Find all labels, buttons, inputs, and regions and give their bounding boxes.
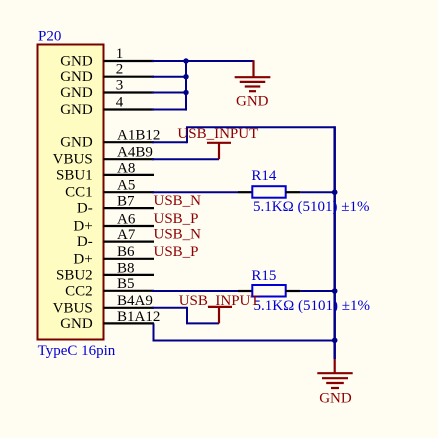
svg-text:USB_INPUT: USB_INPUT bbox=[177, 126, 258, 142]
svg-text:A7: A7 bbox=[117, 227, 136, 243]
junction R14 bus bbox=[332, 189, 338, 195]
value R14 5.1Kohm bbox=[253, 199, 369, 215]
designator R15 bbox=[251, 268, 276, 284]
svg-text:B6: B6 bbox=[117, 244, 135, 260]
svg-text:B5: B5 bbox=[117, 276, 135, 292]
svg-text:1: 1 bbox=[116, 46, 124, 62]
svg-text:A5: A5 bbox=[117, 178, 135, 194]
wire riser A1B12 bbox=[186, 127, 188, 143]
wire B4A9 riser down bbox=[186, 307, 188, 324]
svg-text:SBU1: SBU1 bbox=[56, 167, 93, 183]
svg-text:GND: GND bbox=[319, 391, 352, 407]
svg-text:5.1KΩ (5101) ±1%: 5.1KΩ (5101) ±1% bbox=[254, 298, 370, 314]
svg-text:B8: B8 bbox=[117, 260, 135, 276]
wire A5 to R14 bbox=[152, 191, 238, 193]
svg-text:CC1: CC1 bbox=[65, 185, 93, 201]
wire B1A12 riser down bbox=[153, 323, 155, 340]
net label USB_N bbox=[154, 193, 202, 209]
svg-text:USB_INPUT: USB_INPUT bbox=[179, 293, 260, 309]
wire bottom horizontal to right bus bbox=[153, 340, 335, 342]
wire pin 4 to GND bus bbox=[152, 109, 186, 111]
pin A1B12 (GND) bbox=[60, 128, 160, 151]
svg-text:P20: P20 bbox=[38, 29, 61, 45]
junction bottom bus bbox=[332, 338, 338, 344]
wire pin 3 to GND bus bbox=[152, 92, 186, 94]
svg-text:A8: A8 bbox=[117, 160, 135, 176]
svg-text:5.1KΩ (5101) ±1%: 5.1KΩ (5101) ±1% bbox=[253, 199, 369, 215]
svg-text:2: 2 bbox=[116, 62, 124, 78]
designator R14 bbox=[251, 168, 277, 184]
value R15 5.1Kohm bbox=[254, 298, 370, 314]
wire A1B12 to USB_INPUT net bbox=[152, 141, 187, 143]
pin A8 (SBU1) bbox=[56, 160, 154, 183]
svg-text:B1A12: B1A12 bbox=[117, 309, 160, 325]
svg-text:GND: GND bbox=[60, 135, 93, 151]
svg-text:A6: A6 bbox=[117, 211, 136, 227]
svg-text:A4B9: A4B9 bbox=[117, 145, 153, 161]
svg-text:GND: GND bbox=[60, 54, 93, 70]
net label USB_INPUT upper bbox=[177, 126, 258, 142]
svg-text:GND: GND bbox=[60, 316, 93, 332]
part comment TypeC 16pin bbox=[38, 343, 116, 359]
connector P20 body bbox=[38, 45, 104, 340]
svg-text:R15: R15 bbox=[251, 268, 276, 284]
svg-text:D-: D- bbox=[77, 234, 93, 250]
wire top horizontal to right bus bbox=[186, 126, 335, 128]
svg-text:VBUS: VBUS bbox=[53, 152, 93, 168]
junction pin 2 bus bbox=[183, 74, 188, 79]
pin A6 (D+) bbox=[73, 211, 154, 234]
pin A7 (D-) bbox=[77, 227, 154, 250]
svg-text:CC2: CC2 bbox=[65, 283, 93, 299]
wire R15 to right bus bbox=[300, 290, 334, 292]
svg-text:D+: D+ bbox=[73, 219, 92, 235]
svg-text:3: 3 bbox=[116, 77, 124, 93]
pin B7 (D-) bbox=[77, 194, 154, 217]
ground symbol top bbox=[235, 60, 271, 91]
power port USB_INPUT lower (bar) bbox=[208, 307, 232, 324]
svg-text:GND: GND bbox=[60, 102, 93, 118]
svg-text:R14: R14 bbox=[251, 168, 277, 184]
wire B4A9 jog bbox=[152, 307, 187, 309]
svg-text:USB_P: USB_P bbox=[154, 244, 199, 260]
net label GND top bbox=[236, 94, 269, 110]
svg-text:4: 4 bbox=[116, 94, 124, 110]
svg-text:GND: GND bbox=[236, 94, 269, 110]
svg-text:GND: GND bbox=[60, 85, 93, 101]
svg-text:USB_N: USB_N bbox=[154, 227, 202, 243]
wire GND bus vertical bbox=[185, 60, 187, 111]
wire B4A9 to power stem bbox=[186, 322, 219, 324]
pin B1A12 (GND) bbox=[60, 309, 160, 332]
junction pin 1 bus bbox=[183, 58, 188, 63]
pin A5 (CC1) bbox=[65, 178, 154, 201]
wire pin 1 to GND bus bbox=[152, 60, 254, 62]
resistor R14 bbox=[238, 186, 300, 198]
svg-text:D+: D+ bbox=[73, 251, 92, 267]
pin 2 (GND) bbox=[60, 62, 154, 86]
net label USB_P bbox=[154, 244, 199, 260]
pin B6 (D+) bbox=[73, 244, 154, 267]
pin 3 (GND) bbox=[60, 77, 154, 101]
svg-text:B7: B7 bbox=[117, 194, 135, 210]
ground symbol bottom bbox=[317, 359, 352, 388]
pin B5 (CC2) bbox=[65, 276, 154, 299]
junction pin 3 bus bbox=[183, 90, 188, 95]
net label USB_P bbox=[154, 211, 199, 227]
designator P20 bbox=[38, 29, 61, 45]
wire pin 2 to GND bus bbox=[152, 76, 186, 78]
svg-text:D-: D- bbox=[77, 201, 93, 217]
wire R14 to right bus bbox=[300, 191, 334, 193]
wire right vertical bus bbox=[333, 126, 336, 359]
resistor R15 bbox=[238, 285, 300, 297]
junction R15 bus bbox=[332, 288, 338, 294]
pin A4B9 (VBUS) bbox=[53, 145, 154, 168]
svg-text:USB_N: USB_N bbox=[154, 193, 202, 209]
power port USB_INPUT upper (bar) bbox=[207, 143, 231, 159]
net label USB_N bbox=[154, 227, 202, 243]
net label USB_INPUT lower bbox=[179, 293, 260, 309]
svg-text:B4A9: B4A9 bbox=[117, 293, 153, 309]
wire A4B9 to power port bbox=[152, 158, 219, 160]
pin B4A9 (VBUS) bbox=[53, 293, 154, 316]
net label GND bottom bbox=[319, 391, 352, 407]
svg-text:GND: GND bbox=[60, 69, 93, 85]
pin 1 (GND) bbox=[60, 46, 154, 70]
svg-text:SBU2: SBU2 bbox=[56, 267, 93, 283]
svg-text:USB_P: USB_P bbox=[154, 211, 199, 227]
svg-text:TypeC 16pin: TypeC 16pin bbox=[38, 343, 116, 359]
wire B5 to R15 bbox=[152, 290, 238, 292]
pin 4 (GND) bbox=[60, 94, 154, 118]
svg-text:VBUS: VBUS bbox=[53, 300, 93, 316]
pin B8 (SBU2) bbox=[56, 260, 154, 283]
